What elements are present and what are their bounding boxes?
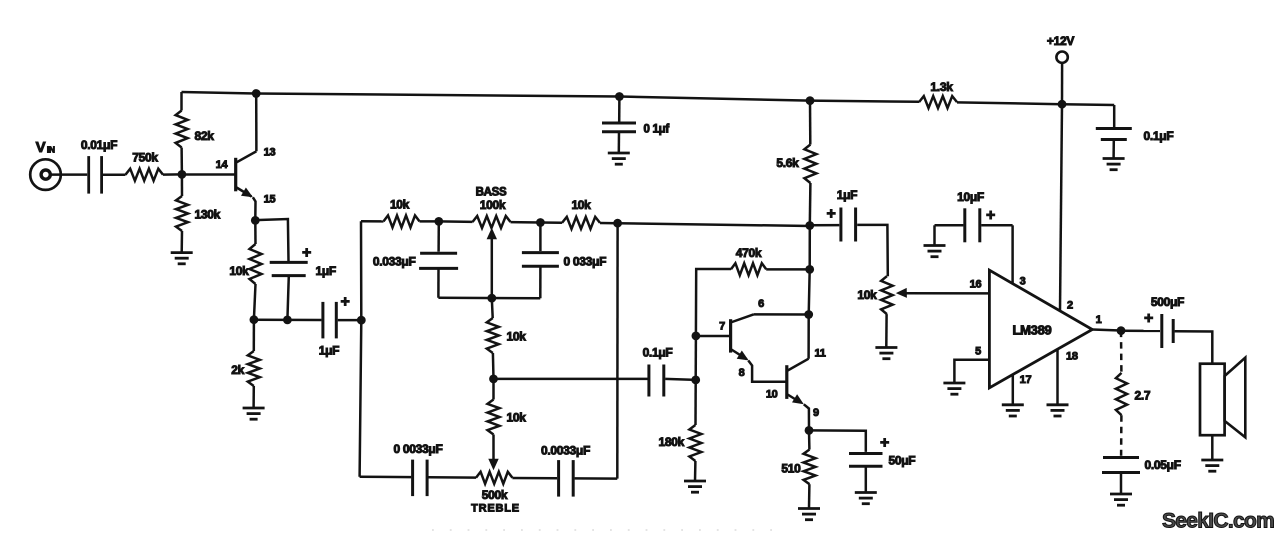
svg-text:1μF: 1μF xyxy=(319,344,339,358)
wire xyxy=(808,484,811,508)
speaker xyxy=(1200,358,1245,438)
svg-text:+: + xyxy=(1144,310,1153,327)
svg-text:16: 16 xyxy=(970,279,982,291)
wire xyxy=(494,378,648,381)
wire xyxy=(180,148,183,175)
input jack VIN xyxy=(30,139,61,190)
wire xyxy=(429,476,477,479)
wire xyxy=(1112,140,1115,159)
ground xyxy=(798,509,820,520)
svg-text:8: 8 xyxy=(739,367,745,379)
+12V supply terminal xyxy=(1047,34,1074,104)
ground xyxy=(608,153,630,164)
svg-text:14: 14 xyxy=(216,159,229,171)
pin 16 label xyxy=(970,279,982,291)
wire xyxy=(618,97,621,122)
ground xyxy=(684,481,706,492)
wire xyxy=(255,219,288,261)
pin 5 wire xyxy=(954,346,989,383)
svg-text:100k: 100k xyxy=(480,198,506,212)
svg-text:BASS: BASS xyxy=(476,187,507,199)
ground xyxy=(1103,159,1125,170)
node bass left xyxy=(434,217,443,226)
svg-text:5: 5 xyxy=(975,346,981,358)
node bass wiper xyxy=(487,294,496,303)
wire xyxy=(618,132,621,153)
capacitor 0.1uF output bypass xyxy=(1096,129,1174,144)
node Q2 collector xyxy=(804,310,813,319)
wire xyxy=(253,320,256,351)
svg-text:500k: 500k xyxy=(482,488,508,502)
wire xyxy=(766,268,810,271)
node tone input xyxy=(357,316,366,325)
resistor 10k mid lower xyxy=(488,400,527,435)
svg-text:1μF: 1μF xyxy=(837,188,857,202)
svg-text:10k: 10k xyxy=(507,411,527,425)
capacitor 0.1uf supply bypass xyxy=(602,123,669,136)
capacitor 0.0033uF left xyxy=(394,442,443,496)
op-amp U1 LM389 xyxy=(989,270,1092,388)
wire xyxy=(857,225,888,276)
wire xyxy=(181,174,184,196)
svg-text:1: 1 xyxy=(1096,314,1102,326)
node emitter bottom xyxy=(250,315,259,324)
wire xyxy=(1121,329,1160,332)
svg-text:500μF: 500μF xyxy=(1151,295,1184,309)
svg-text:13: 13 xyxy=(264,147,276,159)
node feedback right xyxy=(691,376,700,385)
resistor 10k emitter xyxy=(229,244,261,284)
svg-text:+: + xyxy=(826,206,835,223)
capacitor 0.1uF feedback xyxy=(643,346,673,397)
svg-text:LM389: LM389 xyxy=(1013,323,1052,338)
wire xyxy=(694,461,697,481)
resistor 10k bass left xyxy=(384,198,420,228)
potentiometer TREBLE 500k xyxy=(471,472,520,515)
wire xyxy=(696,269,731,336)
wire xyxy=(254,319,322,322)
svg-text:+: + xyxy=(986,207,995,224)
capacitor 50uF xyxy=(849,435,915,468)
wire xyxy=(1113,105,1116,127)
ground xyxy=(171,253,193,264)
svg-text:+12V: +12V xyxy=(1047,34,1074,48)
wire bass wiper xyxy=(438,297,540,300)
wire xyxy=(810,224,840,227)
node Q3 emitter xyxy=(805,426,814,435)
potentiometer 10k volume xyxy=(857,276,989,314)
svg-text:0 033μF: 0 033μF xyxy=(564,255,607,269)
wire xyxy=(665,379,696,380)
node cap bottom xyxy=(283,316,292,325)
wire xyxy=(618,223,810,226)
wire xyxy=(600,222,618,225)
wire xyxy=(287,276,288,320)
ground xyxy=(1201,460,1223,471)
node base xyxy=(178,170,187,179)
wire xyxy=(252,386,255,408)
svg-text:0.1μF: 0.1μF xyxy=(1144,129,1174,143)
wire xyxy=(616,223,619,478)
potentiometer BASS 100k xyxy=(473,187,511,299)
node bypass rail xyxy=(615,92,624,101)
node feedback xyxy=(489,375,498,384)
wire xyxy=(694,380,697,425)
wire xyxy=(420,220,439,223)
svg-text:0.1μF: 0.1μF xyxy=(643,346,673,360)
svg-text:0.05μF: 0.05μF xyxy=(1145,458,1181,472)
resistor 10k mid upper xyxy=(487,318,526,353)
svg-text:15: 15 xyxy=(264,194,276,206)
wire xyxy=(540,221,562,224)
wire xyxy=(512,477,557,480)
ground xyxy=(243,408,265,419)
svg-text:IN: IN xyxy=(47,145,55,155)
wire xyxy=(492,353,495,379)
resistor 1.3k xyxy=(919,80,957,108)
wire xyxy=(808,430,811,449)
capacitor 1uF to volume xyxy=(826,188,857,242)
transistor Q1 xyxy=(182,94,276,221)
resistor 510 xyxy=(781,450,815,485)
node +12V rail xyxy=(1058,100,1067,109)
svg-text:0 0033μF: 0 0033μF xyxy=(394,442,443,456)
svg-text:9: 9 xyxy=(813,407,819,419)
wire xyxy=(360,476,412,479)
watermark SeekIC.com xyxy=(1162,510,1274,533)
svg-text:+: + xyxy=(340,294,349,311)
wire xyxy=(492,379,495,400)
svg-text:1.3k: 1.3k xyxy=(930,80,953,94)
svg-text:750k: 750k xyxy=(132,151,158,165)
node Q2 base xyxy=(692,332,701,341)
wire xyxy=(180,231,183,253)
ground xyxy=(1002,405,1024,416)
svg-text:17: 17 xyxy=(1020,374,1032,386)
svg-text:6: 6 xyxy=(758,298,764,310)
svg-text:10k: 10k xyxy=(857,288,877,302)
ground xyxy=(943,383,965,394)
svg-text:10μF: 10μF xyxy=(957,190,984,204)
wire xyxy=(1120,473,1123,494)
svg-text:130k: 130k xyxy=(195,208,221,222)
wire xyxy=(163,173,182,176)
svg-text:0.033μF: 0.033μF xyxy=(373,255,416,269)
node output xyxy=(1117,326,1126,335)
node 5.6k bottom xyxy=(805,221,814,230)
svg-text:470k: 470k xyxy=(736,246,762,260)
wire xyxy=(575,477,618,480)
capacitor 0.0033uF right xyxy=(541,444,590,497)
capacitor 0.05uF xyxy=(1102,458,1181,473)
resistor 5.6k xyxy=(776,101,816,226)
capacitor 0.033uF left xyxy=(373,221,458,297)
capacitor 0.01uF xyxy=(81,138,117,194)
wire xyxy=(885,314,888,347)
svg-text:18: 18 xyxy=(1066,351,1078,363)
svg-text:5.6k: 5.6k xyxy=(776,156,799,170)
svg-text:7: 7 xyxy=(719,321,725,333)
wire xyxy=(360,221,362,476)
wire dashed xyxy=(1120,415,1123,456)
resistor 82k xyxy=(176,111,215,148)
pin 17 wire xyxy=(1013,374,1032,404)
capacitor 10uF xyxy=(924,190,996,257)
node collector rail xyxy=(252,89,261,98)
resistor 180k xyxy=(659,425,702,461)
resistor 750k xyxy=(126,151,164,181)
svg-text:10k: 10k xyxy=(507,330,527,344)
svg-text:510: 510 xyxy=(781,462,801,476)
scan artifact dots xyxy=(432,529,788,531)
wire xyxy=(1211,435,1214,459)
svg-text:0 1μf: 0 1μf xyxy=(644,124,670,136)
svg-text:82k: 82k xyxy=(195,129,215,143)
wire xyxy=(180,92,183,111)
svg-text:3: 3 xyxy=(1020,276,1026,288)
pin 3 wire xyxy=(1013,225,1026,287)
wire xyxy=(981,224,1012,227)
resistor 2k xyxy=(231,351,260,386)
node bass right xyxy=(536,218,545,227)
wire xyxy=(809,226,810,359)
capacitor 1uF coupling xyxy=(319,294,350,358)
wire xyxy=(809,430,866,452)
node 470k right xyxy=(805,265,814,274)
svg-text:10k: 10k xyxy=(390,198,410,212)
wire xyxy=(865,466,868,492)
wire xyxy=(338,319,362,322)
svg-text:TREBLE: TREBLE xyxy=(471,503,520,515)
svg-text:1μF: 1μF xyxy=(316,264,336,278)
node bass out xyxy=(613,219,622,228)
wire bass rail xyxy=(361,220,384,223)
wire top supply rail xyxy=(182,92,920,102)
ground xyxy=(1047,405,1069,416)
svg-text:2.7: 2.7 xyxy=(1135,389,1151,403)
capacitor 0.033uF right xyxy=(522,223,606,299)
wire xyxy=(254,284,256,320)
wire xyxy=(491,298,494,318)
svg-text:50μF: 50μF xyxy=(889,454,916,468)
wire xyxy=(103,173,126,176)
svg-text:+: + xyxy=(302,245,311,262)
potentiometer TREBLE 500k wiper xyxy=(488,435,498,471)
transistor Q2 xyxy=(696,298,809,382)
resistor 130k xyxy=(176,196,221,231)
node 5.6k rail xyxy=(806,96,815,105)
wire xyxy=(957,102,1114,105)
svg-text:10: 10 xyxy=(766,389,778,401)
svg-text:11: 11 xyxy=(815,348,826,360)
ground xyxy=(875,348,897,359)
ground xyxy=(855,493,877,504)
svg-text:2k: 2k xyxy=(231,363,244,377)
transistor Q3 xyxy=(766,348,826,431)
pin 18 wire xyxy=(1058,349,1078,405)
svg-text:10k: 10k xyxy=(229,264,249,278)
svg-text:10k: 10k xyxy=(571,198,591,212)
svg-text:SeekIC.com: SeekIC.com xyxy=(1162,510,1274,533)
wire xyxy=(1175,331,1213,364)
capacitor 500uF xyxy=(1144,295,1184,348)
wire xyxy=(254,220,257,244)
pin 2 wire xyxy=(1060,104,1073,311)
wire xyxy=(511,221,541,224)
wire xyxy=(51,173,88,176)
wire xyxy=(439,220,473,223)
resistor 10k bass right xyxy=(562,198,600,229)
pin 1 wire xyxy=(1092,314,1117,330)
svg-text:2: 2 xyxy=(1067,300,1073,312)
wire xyxy=(694,336,697,380)
svg-text:+: + xyxy=(880,435,889,452)
resistor 470k xyxy=(731,246,766,275)
node emitter xyxy=(251,216,260,225)
capacitor 1uF emitter bypass xyxy=(270,245,336,279)
resistor 2.7 xyxy=(1116,373,1151,415)
ground xyxy=(1110,494,1132,505)
svg-text:V: V xyxy=(36,139,46,156)
wire dashed xyxy=(1120,331,1123,373)
svg-text:180k: 180k xyxy=(659,435,685,449)
svg-text:0.01μF: 0.01μF xyxy=(81,138,117,152)
svg-text:0.0033μF: 0.0033μF xyxy=(541,444,590,458)
